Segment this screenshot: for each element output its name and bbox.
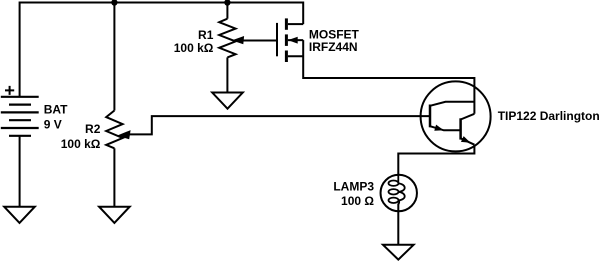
MOSFET source lead — [288, 55, 303, 57]
Darlington inner Q2 base bar — [459, 118, 462, 139]
MOSFET drain lead — [288, 23, 303, 25]
ground below R1 — [212, 93, 243, 109]
transistor U2 TIP122 Darlington circle — [421, 81, 491, 151]
battery BAT plates — [1, 96, 39, 98]
node junction dot at R2 branch — [111, 0, 117, 6]
ground below battery — [4, 207, 35, 223]
lamp filament coil — [389, 175, 405, 205]
wire battery bottom lead — [19, 136, 21, 207]
svg-text:R1: R1 — [198, 28, 214, 42]
MOSFET channel segment middle (body) — [285, 34, 288, 46]
battery plus sign — [5, 86, 14, 95]
ground below R2 — [99, 207, 130, 223]
wire MOSFET source to Darlington collector — [303, 40, 474, 114]
Darlington inner Q2 emitter diagonal — [461, 138, 475, 144]
wire R1 top lead — [226, 3, 228, 19]
MOSFET channel segment top (drain) — [285, 18, 288, 29]
wire R2 top lead — [113, 3, 115, 111]
wire lamp bottom lead — [397, 204, 399, 245]
ground below lamp — [383, 245, 414, 260]
resistor R1 zigzag potentiometer body — [219, 19, 235, 58]
svg-text:100 Ω: 100 Ω — [341, 194, 374, 208]
MOSFET body arrow — [288, 37, 298, 44]
svg-text:9 V: 9 V — [44, 117, 62, 131]
wire top rail from battery to MOSFET drain — [20, 3, 304, 97]
MOSFET body lead — [288, 39, 303, 41]
Darlington inner Q1 emitter arrow — [434, 125, 444, 131]
wire R1 bottom lead — [226, 57, 228, 92]
lamp LAMP3 circle — [381, 175, 417, 211]
svg-text:TIP122 Darlington: TIP122 Darlington — [498, 109, 600, 123]
transistor Q1 MOSFET IRFZ44N gate bar — [276, 23, 278, 56]
wire Darlington emitter to lamp — [398, 145, 474, 175]
svg-text:IRFZ44N: IRFZ44N — [309, 40, 358, 54]
svg-text:BAT: BAT — [44, 103, 68, 117]
node junction dot at R1 branch — [224, 0, 230, 6]
resistor R2 zigzag potentiometer body — [106, 111, 122, 149]
Darlington inner Q1 base bar — [429, 105, 432, 128]
Darlington inner Q1 collector — [430, 102, 474, 106]
R1 wiper arrow — [232, 36, 244, 44]
svg-text:LAMP3: LAMP3 — [333, 179, 374, 193]
R2 wiper arrow — [117, 130, 131, 139]
Darlington inner Q2 collector diagonal — [461, 114, 475, 120]
wire R2 wiper to Darlington base — [130, 116, 431, 134]
MOSFET channel segment bottom (source) — [285, 51, 288, 63]
svg-text:100 kΩ: 100 kΩ — [174, 41, 214, 55]
Darlington inner Q2 emitter arrow — [461, 136, 471, 143]
wire R2 bottom lead — [113, 148, 115, 206]
svg-text:R2: R2 — [85, 122, 101, 136]
wire R1 wiper to MOSFET gate — [243, 40, 277, 42]
svg-text:100 kΩ: 100 kΩ — [61, 137, 101, 151]
Darlington inner Q1 emitter diagonal — [430, 126, 461, 130]
